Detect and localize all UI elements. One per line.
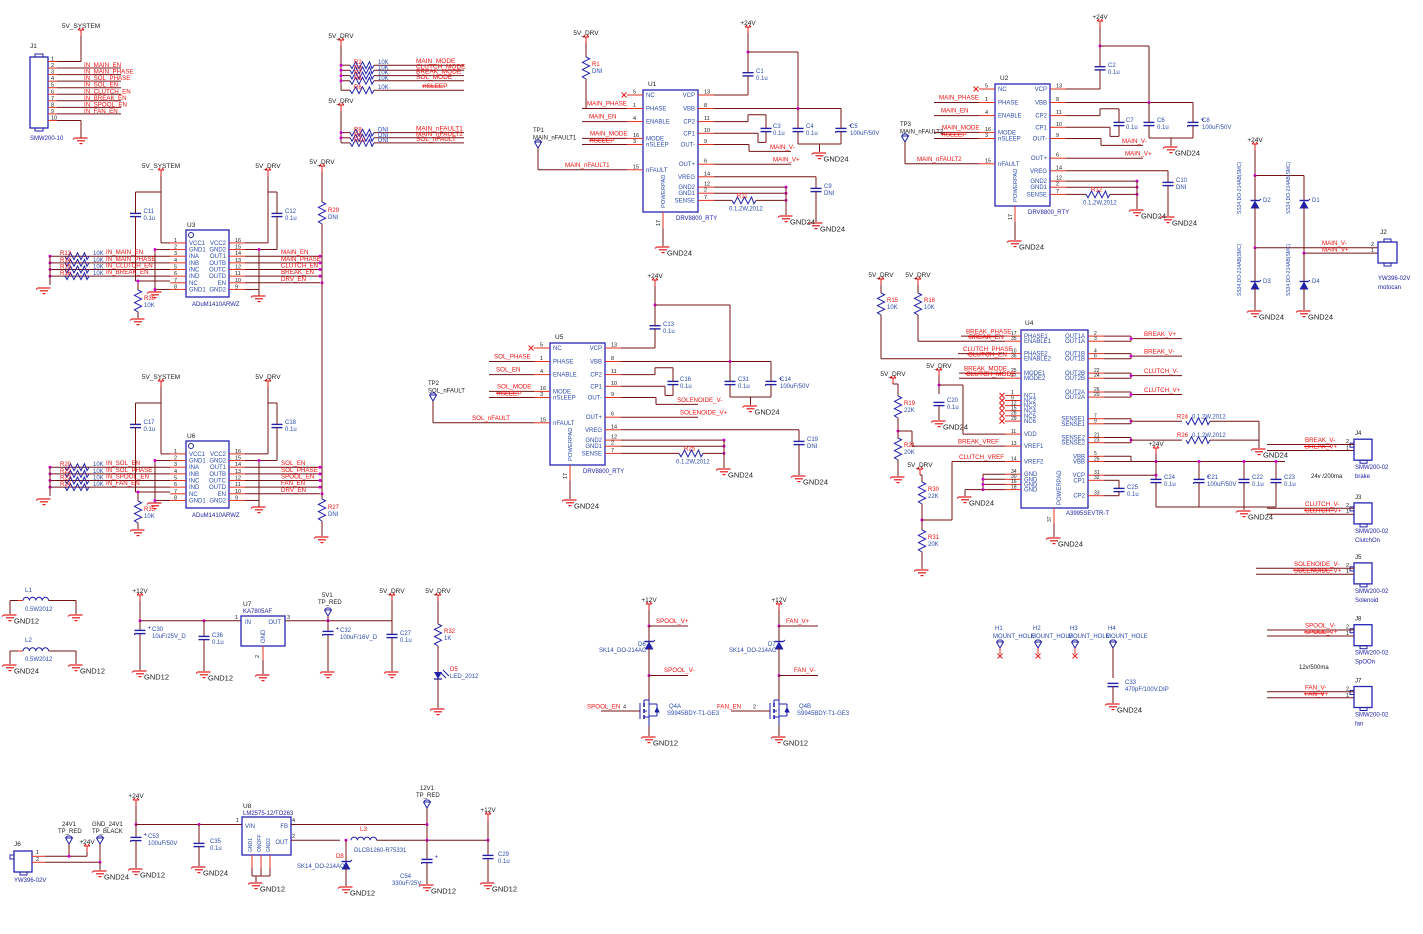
svg-text:YW396-02V: YW396-02V <box>14 878 46 884</box>
svg-text:R14: R14 <box>60 258 72 264</box>
svg-text:OUT: OUT <box>275 840 288 846</box>
svg-text:FAN_V+: FAN_V+ <box>1305 691 1329 698</box>
svg-text:GND12: GND12 <box>653 739 678 748</box>
svg-text:10K: 10K <box>93 476 104 482</box>
svg-text:GND2: GND2 <box>678 185 695 191</box>
svg-text:15: 15 <box>235 245 241 251</box>
svg-text:GND12: GND12 <box>14 617 39 626</box>
svg-text:C18: C18 <box>285 420 297 426</box>
svg-text:J2: J2 <box>1380 229 1387 236</box>
svg-text:SOL_nFAULT: SOL_nFAULT <box>416 136 456 143</box>
svg-text:16: 16 <box>540 386 546 392</box>
svg-text:VDD: VDD <box>1024 432 1037 438</box>
svg-text:33: 33 <box>1094 491 1100 497</box>
svg-text:IN: IN <box>245 620 251 626</box>
svg-text:0.1u: 0.1u <box>806 131 818 137</box>
svg-text:INA: INA <box>189 465 199 471</box>
svg-text:GND24: GND24 <box>1172 219 1197 228</box>
svg-text:OUTC: OUTC <box>209 268 227 274</box>
svg-text:12V1: 12V1 <box>420 786 435 792</box>
svg-text:U4: U4 <box>1025 320 1034 327</box>
svg-text:1: 1 <box>51 57 54 63</box>
svg-text:10K: 10K <box>93 482 104 488</box>
svg-text:DRV8800_RTY: DRV8800_RTY <box>676 216 717 222</box>
svg-text:NC6: NC6 <box>1024 419 1037 425</box>
svg-text:6: 6 <box>174 482 177 488</box>
svg-text:13: 13 <box>235 469 241 475</box>
svg-text:NC: NC <box>189 281 198 287</box>
svg-text:Q4A: Q4A <box>669 704 681 710</box>
svg-text:D1: D1 <box>1312 198 1320 204</box>
svg-text:10: 10 <box>235 278 241 284</box>
svg-text:GND24: GND24 <box>790 218 815 227</box>
svg-text:0.1u: 0.1u <box>285 216 297 222</box>
svg-text:12: 12 <box>704 182 710 188</box>
svg-text:DRV8800_RTY: DRV8800_RTY <box>1028 210 1069 216</box>
svg-text:CP2: CP2 <box>1035 114 1047 120</box>
svg-text:GND24: GND24 <box>728 471 753 480</box>
svg-text:1K: 1K <box>444 636 451 642</box>
svg-text:11: 11 <box>704 116 710 122</box>
svg-text:CLUTCH_EN: CLUTCH_EN <box>968 351 1007 358</box>
svg-text:100uF/50V: 100uF/50V <box>1207 482 1236 488</box>
svg-text:11: 11 <box>235 482 241 488</box>
svg-text:SOL_MODE: SOL_MODE <box>416 74 453 81</box>
svg-text:J3: J3 <box>1355 495 1362 501</box>
svg-text:9: 9 <box>235 495 238 501</box>
svg-text:0.1u: 0.1u <box>1252 482 1264 488</box>
svg-text:CP2: CP2 <box>683 120 695 126</box>
svg-text:C25: C25 <box>1127 485 1139 491</box>
svg-text:H2: H2 <box>1033 626 1041 632</box>
svg-text:14: 14 <box>611 424 617 430</box>
svg-text:GND_24V1: GND_24V1 <box>92 822 123 828</box>
svg-text:13: 13 <box>611 343 617 349</box>
svg-text:R24: R24 <box>60 482 72 488</box>
svg-text:nSLEEP: nSLEEP <box>423 83 448 90</box>
svg-text:R10: R10 <box>354 138 366 144</box>
svg-text:R1: R1 <box>592 62 600 68</box>
svg-text:R16: R16 <box>60 271 72 277</box>
svg-text:MODE: MODE <box>553 389 571 395</box>
svg-text:8: 8 <box>174 284 177 290</box>
svg-text:C19: C19 <box>807 437 819 443</box>
svg-text:13: 13 <box>1056 84 1062 90</box>
svg-text:L3: L3 <box>360 826 367 833</box>
svg-text:5V_DRV: 5V_DRV <box>255 163 281 170</box>
svg-text:5: 5 <box>633 90 636 96</box>
svg-text:nSLEEP: nSLEEP <box>942 132 967 139</box>
svg-text:J8: J8 <box>1355 617 1362 623</box>
svg-text:J1: J1 <box>30 43 37 50</box>
svg-text:GND1: GND1 <box>678 191 695 197</box>
svg-text:DNI: DNI <box>328 512 339 518</box>
svg-text:+: + <box>144 833 148 839</box>
svg-text:2: 2 <box>1346 503 1349 509</box>
svg-text:KA7805AF: KA7805AF <box>243 609 272 615</box>
svg-text:37: 37 <box>1047 516 1053 522</box>
svg-text:+12V: +12V <box>132 588 148 595</box>
svg-text:nFAULT: nFAULT <box>646 168 668 174</box>
svg-text:GND24: GND24 <box>1308 313 1333 322</box>
svg-text:C29: C29 <box>498 852 510 858</box>
svg-text:GND12: GND12 <box>80 667 105 676</box>
svg-text:5: 5 <box>51 83 54 89</box>
svg-text:MAIN_V+: MAIN_V+ <box>1125 151 1152 158</box>
svg-text:5V_SYSTEM: 5V_SYSTEM <box>62 23 100 30</box>
svg-text:GND: GND <box>1024 488 1038 494</box>
svg-text:20K: 20K <box>904 450 915 456</box>
svg-text:MAIN_nFAULT1: MAIN_nFAULT1 <box>565 162 610 169</box>
svg-text:VBB: VBB <box>1035 101 1047 107</box>
svg-text:4: 4 <box>174 469 177 475</box>
svg-text:2: 2 <box>292 834 295 840</box>
svg-text:0.1u: 0.1u <box>144 427 156 433</box>
svg-text:GND2: GND2 <box>209 287 226 293</box>
svg-text:SPOOL_V-: SPOOL_V- <box>664 667 695 674</box>
svg-text:+24V: +24V <box>128 793 144 800</box>
svg-text:PHASE: PHASE <box>646 107 666 113</box>
svg-text:TP_RED: TP_RED <box>416 793 440 799</box>
svg-text:GND1: GND1 <box>189 248 206 254</box>
svg-text:GND12: GND12 <box>492 885 517 894</box>
svg-text:16: 16 <box>235 238 241 244</box>
svg-text:1: 1 <box>235 615 238 621</box>
svg-text:2: 2 <box>1056 182 1059 188</box>
svg-text:R29: R29 <box>328 208 340 214</box>
svg-text:2: 2 <box>51 63 54 69</box>
svg-text:ClutchOn: ClutchOn <box>1355 538 1380 544</box>
svg-text:OUT1: OUT1 <box>210 465 227 471</box>
svg-text:GND24: GND24 <box>824 155 849 164</box>
svg-text:15: 15 <box>235 456 241 462</box>
svg-text:C11: C11 <box>144 209 155 215</box>
svg-text:6: 6 <box>704 159 707 165</box>
svg-text:GND24: GND24 <box>1259 313 1284 322</box>
svg-text:35: 35 <box>1011 336 1017 342</box>
svg-text:MAIN_PHASE: MAIN_PHASE <box>587 101 627 108</box>
svg-text:C32: C32 <box>340 628 352 634</box>
svg-text:U1: U1 <box>648 81 657 88</box>
svg-text:VREF1: VREF1 <box>1024 444 1044 450</box>
svg-text:C7: C7 <box>1126 118 1134 124</box>
svg-text:MAIN_V-: MAIN_V- <box>1122 138 1147 145</box>
svg-text:U5: U5 <box>555 334 564 341</box>
svg-text:C10: C10 <box>1176 178 1188 184</box>
svg-text:DNI: DNI <box>378 138 389 144</box>
svg-text:SPOOL_V+: SPOOL_V+ <box>656 618 689 625</box>
svg-text:GND24: GND24 <box>667 249 692 258</box>
svg-text:OUT-: OUT- <box>681 143 695 149</box>
svg-text:OUT1: OUT1 <box>210 254 227 260</box>
svg-text:S9945BDY-T1-GE3: S9945BDY-T1-GE3 <box>667 711 720 717</box>
svg-text:ENABLE: ENABLE <box>646 120 670 126</box>
svg-text:9: 9 <box>235 284 238 290</box>
svg-text:SENSE: SENSE <box>1027 192 1047 198</box>
svg-text:13: 13 <box>1011 441 1017 447</box>
svg-text:5V_DRV: 5V_DRV <box>880 371 906 378</box>
svg-text:OUT: OUT <box>268 620 281 626</box>
svg-text:OUT2B: OUT2B <box>1065 376 1085 382</box>
svg-text:D3: D3 <box>1263 279 1271 285</box>
svg-text:SOL_nFAULT: SOL_nFAULT <box>472 415 510 422</box>
svg-text:ENABLE1: ENABLE1 <box>1024 339 1052 345</box>
svg-text:0.1,2W,2012: 0.1,2W,2012 <box>676 460 710 466</box>
svg-text:16: 16 <box>985 127 991 133</box>
svg-text:U3: U3 <box>187 222 196 229</box>
svg-text:GND24: GND24 <box>1117 706 1142 715</box>
svg-text:2: 2 <box>704 188 707 194</box>
svg-text:3: 3 <box>174 462 177 468</box>
svg-text:fan: fan <box>1355 722 1363 728</box>
svg-text:4: 4 <box>985 110 988 116</box>
svg-text:CP2: CP2 <box>1073 494 1085 500</box>
svg-text:BREAK_EN: BREAK_EN <box>969 334 1004 341</box>
svg-text:H3: H3 <box>1070 626 1078 632</box>
svg-text:INC: INC <box>189 268 200 274</box>
svg-text:VCP: VCP <box>590 346 602 352</box>
svg-text:5V_SYSTEM: 5V_SYSTEM <box>142 163 180 170</box>
svg-text:11: 11 <box>1011 429 1016 435</box>
svg-text:C5: C5 <box>850 124 858 130</box>
svg-text:GND1: GND1 <box>189 498 206 504</box>
svg-text:36: 36 <box>1011 354 1017 360</box>
svg-text:5: 5 <box>985 84 988 90</box>
svg-text:TP_RED: TP_RED <box>58 829 82 835</box>
svg-text:0.1u: 0.1u <box>680 384 692 390</box>
svg-text:+24V: +24V <box>1148 441 1164 448</box>
svg-text:R19: R19 <box>904 401 916 407</box>
svg-text:10K: 10K <box>887 305 898 311</box>
svg-text:10K: 10K <box>93 271 104 277</box>
svg-text:20: 20 <box>1094 392 1100 398</box>
svg-text:6: 6 <box>611 412 614 418</box>
svg-text:SOL_nFAULT: SOL_nFAULT <box>428 389 465 395</box>
svg-text:GND24: GND24 <box>943 423 968 432</box>
svg-text:9: 9 <box>1056 133 1059 139</box>
svg-text:SPOOL_V+: SPOOL_V+ <box>1305 629 1338 636</box>
svg-text:5V_SYSTEM: 5V_SYSTEM <box>142 374 180 381</box>
svg-text:CLUTCH_V+: CLUTCH_V+ <box>1144 387 1181 394</box>
svg-text:MOUNT_HOLE: MOUNT_HOLE <box>1106 634 1148 640</box>
svg-text:nSLEEP: nSLEEP <box>590 138 615 145</box>
svg-text:nSLEEP: nSLEEP <box>646 143 669 149</box>
svg-text:GND24: GND24 <box>1019 243 1044 252</box>
svg-text:IND: IND <box>189 274 200 280</box>
svg-text:2: 2 <box>36 857 39 863</box>
svg-text:L1: L1 <box>25 587 32 594</box>
svg-text:2: 2 <box>174 245 177 251</box>
svg-text:POWERPAD: POWERPAD <box>661 175 667 208</box>
svg-text:R15: R15 <box>887 298 899 304</box>
svg-text:5V_DRV: 5V_DRV <box>907 462 933 469</box>
svg-text:6: 6 <box>51 89 54 95</box>
svg-text:VIN: VIN <box>245 824 255 830</box>
svg-text:EN: EN <box>218 281 226 287</box>
svg-text:D5: D5 <box>450 667 458 673</box>
svg-text:10uF/25V_D: 10uF/25V_D <box>152 634 186 640</box>
svg-text:5V_DRV: 5V_DRV <box>309 159 335 166</box>
svg-text:+24V: +24V <box>1247 137 1263 144</box>
svg-text:12: 12 <box>235 476 241 482</box>
svg-text:SMW200-02: SMW200-02 <box>1355 465 1389 471</box>
svg-text:1: 1 <box>985 97 988 103</box>
svg-text:R22: R22 <box>60 469 72 475</box>
svg-text:J5: J5 <box>1355 555 1362 561</box>
svg-text:SOL_EN: SOL_EN <box>496 367 520 374</box>
svg-text:8: 8 <box>704 103 707 109</box>
svg-text:H4: H4 <box>1108 626 1116 632</box>
svg-text:BREAK_V-: BREAK_V- <box>1144 349 1174 356</box>
svg-text:5V_DRV: 5V_DRV <box>905 272 931 279</box>
svg-text:+24V: +24V <box>79 839 95 846</box>
svg-text:8: 8 <box>611 356 614 362</box>
svg-text:MOUNT_HOLE: MOUNT_HOLE <box>993 634 1035 640</box>
svg-text:8: 8 <box>174 495 177 501</box>
svg-text:SENSE: SENSE <box>675 198 695 204</box>
svg-text:PHASE: PHASE <box>998 101 1018 107</box>
svg-text:4: 4 <box>633 116 636 122</box>
svg-text:PHASE: PHASE <box>553 360 573 366</box>
svg-text:3: 3 <box>540 392 543 398</box>
svg-text:nSLEEP: nSLEEP <box>998 137 1021 143</box>
svg-text:2: 2 <box>255 655 261 658</box>
svg-text:BREAK_VREF: BREAK_VREF <box>958 439 999 446</box>
svg-text:VCP: VCP <box>683 93 695 99</box>
svg-text:24v /200ma: 24v /200ma <box>1311 474 1343 480</box>
svg-text:GND2: GND2 <box>585 438 602 444</box>
svg-text:GND12: GND12 <box>144 673 169 682</box>
svg-text:C8: C8 <box>1202 118 1210 124</box>
svg-text:nSLEEP: nSLEEP <box>553 396 576 402</box>
svg-text:5: 5 <box>174 265 177 271</box>
svg-text:15: 15 <box>540 417 546 423</box>
svg-text:3: 3 <box>1094 336 1097 342</box>
svg-text:2: 2 <box>1346 687 1349 693</box>
svg-text:VREG: VREG <box>585 428 602 434</box>
svg-text:TP_RED: TP_RED <box>318 600 342 606</box>
svg-text:C54: C54 <box>400 874 412 880</box>
svg-text:10K: 10K <box>144 514 155 520</box>
svg-text:0.1u: 0.1u <box>1164 482 1176 488</box>
svg-text:C24: C24 <box>1164 475 1176 481</box>
svg-text:GND24: GND24 <box>1141 212 1166 221</box>
svg-text:1: 1 <box>36 850 39 856</box>
svg-text:BREAK_V+: BREAK_V+ <box>1144 331 1177 338</box>
svg-text:SMW200-02: SMW200-02 <box>1355 713 1389 719</box>
svg-text:LED_2012: LED_2012 <box>450 674 479 680</box>
svg-text:9: 9 <box>1094 419 1097 425</box>
svg-text:C31: C31 <box>738 377 750 383</box>
svg-text:100uF/50V: 100uF/50V <box>850 131 879 137</box>
svg-text:C14: C14 <box>780 377 792 383</box>
svg-text:DRV_EN: DRV_EN <box>281 487 306 494</box>
svg-text:POWERPAD: POWERPAD <box>1057 470 1063 505</box>
svg-text:IND: IND <box>189 485 200 491</box>
svg-text:22K: 22K <box>904 408 915 414</box>
svg-text:ADuM1410ARWZ: ADuM1410ARWZ <box>192 513 240 519</box>
svg-text:4: 4 <box>51 76 54 82</box>
svg-text:GND24: GND24 <box>1263 451 1288 460</box>
svg-text:CP2: CP2 <box>590 373 602 379</box>
svg-text:D4: D4 <box>1312 279 1320 285</box>
svg-text:1: 1 <box>1346 693 1349 699</box>
svg-text:GND24: GND24 <box>574 502 599 511</box>
svg-text:24V1: 24V1 <box>62 822 77 828</box>
svg-text:TP1: TP1 <box>533 128 545 134</box>
svg-text:NC: NC <box>998 87 1007 93</box>
svg-text:SMW200-02: SMW200-02 <box>1355 529 1389 535</box>
svg-text:OUT+: OUT+ <box>679 162 696 168</box>
svg-text:1: 1 <box>236 818 239 824</box>
svg-text:+12V: +12V <box>480 807 496 814</box>
svg-text:17: 17 <box>656 220 662 226</box>
svg-text:SpOOn: SpOOn <box>1355 660 1375 666</box>
svg-text:C30: C30 <box>152 627 164 633</box>
svg-text:24: 24 <box>1094 373 1100 379</box>
svg-text:nSLEEP: nSLEEP <box>497 391 522 398</box>
svg-text:IN_FAN_EN: IN_FAN_EN <box>106 480 140 487</box>
svg-text:9: 9 <box>51 109 54 115</box>
svg-text:FAN_V+: FAN_V+ <box>786 618 810 625</box>
svg-text:GND24: GND24 <box>14 667 39 676</box>
svg-text:5V_DRV: 5V_DRV <box>328 98 354 105</box>
svg-text:GND24: GND24 <box>1058 540 1083 549</box>
svg-text:MAIN_V+: MAIN_V+ <box>1322 247 1349 254</box>
svg-text:0.1u: 0.1u <box>498 859 510 865</box>
svg-text:ADuM1410ARWZ: ADuM1410ARWZ <box>192 302 240 308</box>
svg-text:R13: R13 <box>60 251 72 257</box>
svg-text:C2: C2 <box>1108 63 1116 69</box>
svg-text:MOUNT_HOLE: MOUNT_HOLE <box>1068 634 1110 640</box>
svg-text:4: 4 <box>292 818 295 824</box>
svg-text:0.1,2W,2012: 0.1,2W,2012 <box>1192 414 1226 420</box>
svg-text:5V_DRV: 5V_DRV <box>926 363 952 370</box>
svg-text:0.1u: 0.1u <box>144 216 156 222</box>
svg-text:MAIN_V+: MAIN_V+ <box>773 157 800 164</box>
svg-text:EN: EN <box>218 492 226 498</box>
svg-text:R16: R16 <box>924 298 936 304</box>
svg-text:0.1u: 0.1u <box>947 405 959 411</box>
svg-text:VREG: VREG <box>678 175 695 181</box>
svg-text:0.1u: 0.1u <box>1126 125 1138 131</box>
svg-text:OUTD: OUTD <box>209 274 227 280</box>
svg-text:OUTC: OUTC <box>209 479 227 485</box>
svg-text:3: 3 <box>985 133 988 139</box>
svg-text:C21: C21 <box>1207 475 1219 481</box>
svg-text:GND24: GND24 <box>1175 149 1200 158</box>
svg-text:14: 14 <box>235 462 241 468</box>
svg-text:0.1u: 0.1u <box>773 131 785 137</box>
svg-text:4: 4 <box>174 258 177 264</box>
svg-text:10K: 10K <box>93 265 104 271</box>
svg-text:17: 17 <box>1008 214 1014 220</box>
svg-text:16: 16 <box>235 449 241 455</box>
svg-text:VBB: VBB <box>590 360 602 366</box>
svg-text:10: 10 <box>51 115 57 121</box>
svg-text:10K: 10K <box>144 303 155 309</box>
svg-text:2: 2 <box>1346 625 1349 631</box>
svg-text:18: 18 <box>1011 484 1017 490</box>
svg-text:MODE: MODE <box>998 130 1016 136</box>
svg-text:DNI: DNI <box>1176 185 1187 191</box>
svg-text:DNI: DNI <box>807 444 818 450</box>
svg-text:SK14_DO-214AC: SK14_DO-214AC <box>297 864 345 870</box>
svg-text:SOL_MODE: SOL_MODE <box>497 383 531 390</box>
svg-text:8: 8 <box>1056 97 1059 103</box>
svg-text:GND1: GND1 <box>248 838 254 852</box>
svg-text:nFAULT: nFAULT <box>998 162 1020 168</box>
